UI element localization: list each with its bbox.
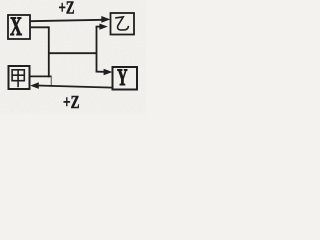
wire into 甲 upper connection <box>30 75 52 77</box>
box 乙 <box>111 13 135 35</box>
box 甲 <box>9 66 30 89</box>
wire stub to 乙 lower arrow <box>96 26 100 28</box>
box Y <box>113 67 138 90</box>
wire Y to 甲 bottom shaft <box>38 86 113 88</box>
wire X lower output stub <box>30 26 50 28</box>
arrowhead into 乙 lower <box>99 24 107 30</box>
wire stub to Y arrow <box>96 71 105 73</box>
arrowhead into 甲 <box>30 82 39 89</box>
wire left vertical <box>48 27 50 78</box>
arrowhead into Y <box>104 69 113 76</box>
paper noise overlay <box>0 0 1 1</box>
arrowhead into 乙 upper <box>101 16 110 23</box>
wire middle horizontal <box>49 52 97 54</box>
wire right vertical <box>96 27 98 72</box>
char 甲 <box>12 70 24 87</box>
box X <box>8 15 30 39</box>
wire X to 乙 top arrow shaft <box>30 20 103 21</box>
wire faint drop to bottom line <box>50 76 52 86</box>
char 乙 <box>115 17 128 30</box>
